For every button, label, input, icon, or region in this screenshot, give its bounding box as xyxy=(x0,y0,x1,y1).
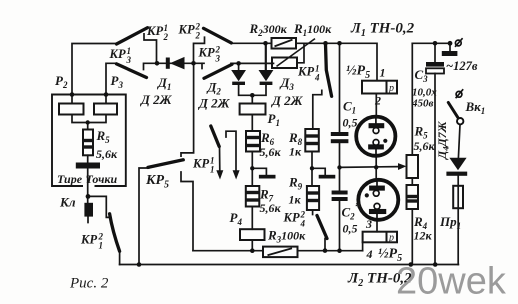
svg-text:р: р xyxy=(388,83,394,94)
svg-text:5,6к: 5,6к xyxy=(96,147,118,161)
svg-text:КР: КР xyxy=(297,65,314,79)
svg-text:12к: 12к xyxy=(414,229,433,243)
svg-text:Д 2Ж: Д 2Ж xyxy=(198,96,231,111)
svg-text:КР: КР xyxy=(178,23,195,37)
svg-text:Тире: Тире xyxy=(57,172,83,186)
svg-text:3: 3 xyxy=(365,217,372,231)
svg-text:450в: 450в xyxy=(411,98,434,110)
svg-text:КР: КР xyxy=(192,157,209,171)
svg-text:3: 3 xyxy=(126,55,132,65)
svg-text:КР: КР xyxy=(146,24,163,38)
svg-text:1: 1 xyxy=(210,165,215,175)
svg-text:2: 2 xyxy=(163,32,169,42)
svg-text:КР: КР xyxy=(283,211,300,225)
svg-text:р: р xyxy=(388,233,394,244)
svg-text:4: 4 xyxy=(300,219,306,229)
svg-text:2: 2 xyxy=(374,94,381,108)
svg-text:Д 2Ж: Д 2Ж xyxy=(271,93,304,108)
svg-text:1: 1 xyxy=(380,66,386,80)
svg-text:1к: 1к xyxy=(289,145,302,159)
svg-text:R3100к: R3100к xyxy=(267,228,306,245)
svg-text:Точки: Точки xyxy=(86,172,118,186)
svg-text:5,6к: 5,6к xyxy=(414,139,436,153)
svg-text:Д4Д7Ж: Д4Д7Ж xyxy=(435,120,451,160)
svg-text:Д 2Ж: Д 2Ж xyxy=(140,92,173,107)
svg-text:Рис. 2: Рис. 2 xyxy=(69,276,109,292)
svg-text:R1100к: R1100к xyxy=(293,21,332,38)
svg-text:2: 2 xyxy=(195,31,201,41)
svg-text:5,6к: 5,6к xyxy=(260,145,282,159)
svg-text:Л1 ТН-0,2: Л1 ТН-0,2 xyxy=(350,21,415,40)
svg-text:1: 1 xyxy=(99,241,104,251)
svg-text:4: 4 xyxy=(366,247,373,261)
svg-text:0,5: 0,5 xyxy=(343,222,358,236)
svg-text:5,6к: 5,6к xyxy=(260,201,282,215)
svg-text:КР: КР xyxy=(80,233,97,247)
svg-text:3: 3 xyxy=(215,54,221,64)
svg-text:20wek: 20wek xyxy=(396,261,507,303)
svg-text:Кл: Кл xyxy=(59,195,76,210)
svg-text:КР: КР xyxy=(198,46,215,60)
svg-text:R2300к: R2300к xyxy=(249,21,288,38)
svg-text:~127в: ~127в xyxy=(446,59,478,73)
svg-text:0,5: 0,5 xyxy=(343,116,358,130)
svg-text:1к: 1к xyxy=(289,193,302,207)
svg-text:4: 4 xyxy=(314,73,320,83)
svg-text:КР: КР xyxy=(109,47,126,61)
